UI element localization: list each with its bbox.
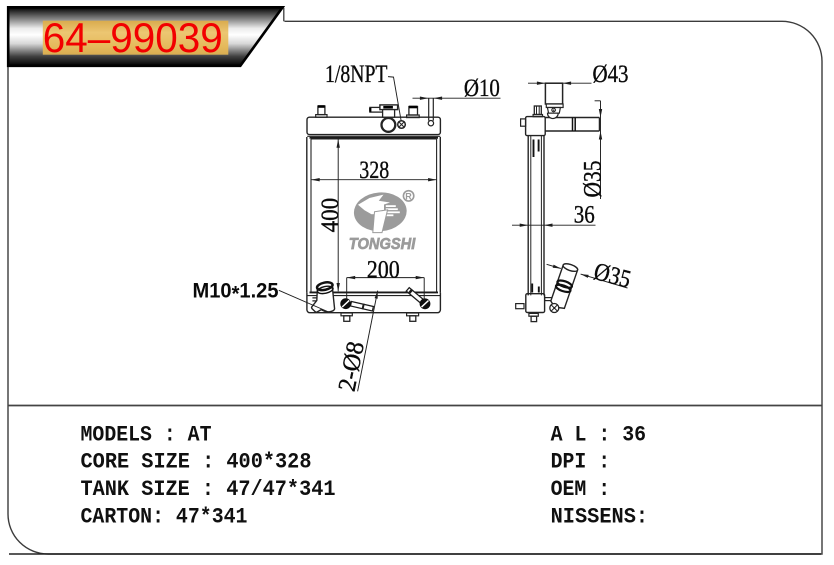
svg-text:64–99039: 64–99039 xyxy=(43,14,223,61)
svg-text:R: R xyxy=(405,192,412,202)
svg-text:DPI :: DPI : xyxy=(551,450,611,475)
svg-text:TONGSHI: TONGSHI xyxy=(349,236,416,253)
svg-text:Ø35: Ø35 xyxy=(579,161,606,198)
svg-text:Ø43: Ø43 xyxy=(593,61,629,88)
svg-text:OEM :: OEM : xyxy=(551,477,611,502)
svg-text:Ø10: Ø10 xyxy=(464,75,500,102)
svg-text:NISSENS:: NISSENS: xyxy=(551,505,649,530)
svg-text:1/8NPT: 1/8NPT xyxy=(325,61,388,88)
svg-text:MODELS : AT: MODELS : AT xyxy=(81,422,212,447)
svg-text:TANK SIZE : 47/47*341: TANK SIZE : 47/47*341 xyxy=(81,477,336,502)
svg-text:328: 328 xyxy=(359,157,389,184)
svg-text:A L : 36: A L : 36 xyxy=(551,422,647,447)
svg-text:36: 36 xyxy=(574,201,595,228)
svg-text:200: 200 xyxy=(367,256,400,283)
svg-text:CORE SIZE : 400*328: CORE SIZE : 400*328 xyxy=(81,450,312,475)
svg-text:M10*1.25: M10*1.25 xyxy=(193,279,279,305)
svg-text:400: 400 xyxy=(317,198,344,233)
svg-text:CARTON: 47*341: CARTON: 47*341 xyxy=(81,505,248,530)
